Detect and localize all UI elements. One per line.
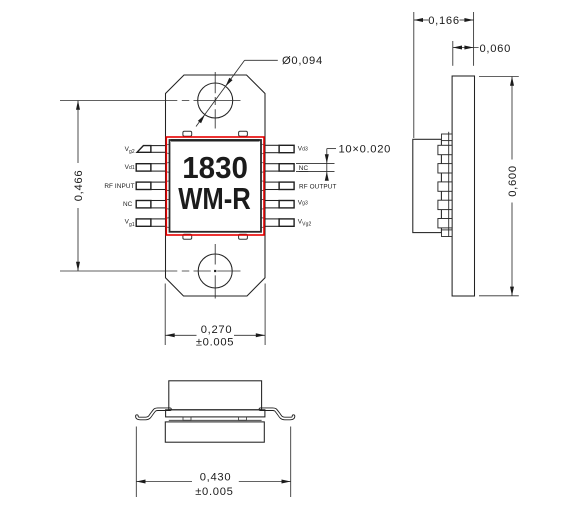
side pin seating line — [448, 132, 450, 237]
svg-text:0,166: 0,166 — [428, 15, 460, 27]
pin 1 left (Vg2) chamfered — [137, 144, 170, 153]
index tab bottom-right — [239, 234, 248, 239]
side tab stub bottom — [442, 230, 453, 237]
pin 4 left (NC) — [136, 199, 169, 209]
ceramic lid — [170, 140, 262, 232]
svg-text:0,466: 0,466 — [73, 170, 85, 202]
pin 9 right (Vg3) — [261, 199, 294, 209]
svg-text:0,060: 0,060 — [480, 43, 512, 55]
bottom seating line — [169, 419, 262, 421]
pin 10 right (Vg2) — [261, 218, 294, 228]
svg-text:±0.005: ±0.005 — [195, 486, 233, 498]
svg-text:1830: 1830 — [182, 151, 248, 185]
bottom lid — [169, 381, 262, 410]
side pin stub 5 — [438, 219, 452, 228]
svg-text:0,430: 0,430 — [200, 471, 232, 483]
dimension 0,466 line — [76, 101, 80, 272]
svg-text:RF OUTPUT: RF OUTPUT — [299, 183, 336, 190]
side pin stub 3 — [438, 182, 452, 191]
svg-text:10×0.020: 10×0.020 — [339, 144, 392, 156]
svg-text:Vg3: Vg3 — [298, 199, 308, 206]
gull-wing lead right — [260, 409, 293, 418]
mounting hole bottom — [198, 254, 232, 288]
index tab top-right — [239, 131, 248, 136]
index tab bottom-left — [183, 234, 192, 239]
gull-wing lead left — [137, 409, 170, 418]
pin 3 left (RF INPUT) — [136, 181, 169, 191]
bottom hole centerline vertical — [214, 244, 216, 299]
bottom ceramic base — [166, 410, 265, 417]
bottom flange — [165, 422, 264, 442]
top hole centerline vertical — [214, 72, 216, 129]
dimension 0,430 extension lines — [136, 427, 290, 498]
hole diameter callout leader — [196, 60, 278, 126]
svg-text:NC: NC — [123, 201, 133, 208]
svg-text:0,270: 0,270 — [201, 324, 233, 336]
bottom tab mark right — [239, 417, 247, 420]
mounting hole top — [198, 83, 233, 118]
pin 2 left (Vd1) — [136, 163, 169, 173]
svg-text:Vd3: Vd3 — [298, 145, 308, 152]
package flange outline — [166, 75, 266, 296]
index tab top-left — [183, 131, 192, 136]
dimension 0,270 line — [166, 333, 266, 337]
pin 7 right (NC) — [261, 163, 294, 173]
svg-text:WM-R: WM-R — [178, 182, 251, 216]
dimension 0,060 — [453, 41, 479, 66]
side pin stub 4 — [438, 200, 452, 209]
svg-text:Vd1: Vd1 — [125, 164, 135, 171]
bottom hole centerline horizontal — [60, 270, 241, 272]
pin 6 right (Vd3) — [261, 144, 294, 154]
dimension 0,430 line — [136, 480, 290, 484]
red body outline — [166, 137, 264, 235]
svg-text:±0.005: ±0.005 — [196, 336, 234, 348]
side tab stub top — [442, 134, 453, 141]
bottom tab mark left — [183, 417, 191, 420]
dimension 0,270 extension lines — [165, 284, 265, 346]
side body — [413, 139, 442, 232]
svg-text:RF INPUT: RF INPUT — [104, 183, 134, 190]
dimension 0,166 — [414, 12, 474, 138]
lid top seal line — [171, 139, 260, 141]
bottom hole center mark — [214, 270, 216, 272]
svg-text:0,600: 0,600 — [507, 165, 519, 197]
side pin stub 2 — [438, 164, 452, 173]
dimension 0,600 — [479, 77, 519, 296]
side flange plate — [452, 76, 474, 296]
svg-text:Ø0,094: Ø0,094 — [282, 55, 323, 67]
lead width callout 10x0.020 — [296, 149, 336, 181]
pin 8 right (RF OUTPUT) — [261, 181, 294, 191]
side pin stub 1 — [438, 145, 452, 154]
pin 5 left (Vg1) — [136, 218, 169, 228]
top hole centerline horizontal — [60, 100, 241, 102]
svg-text:NC: NC — [299, 165, 309, 172]
